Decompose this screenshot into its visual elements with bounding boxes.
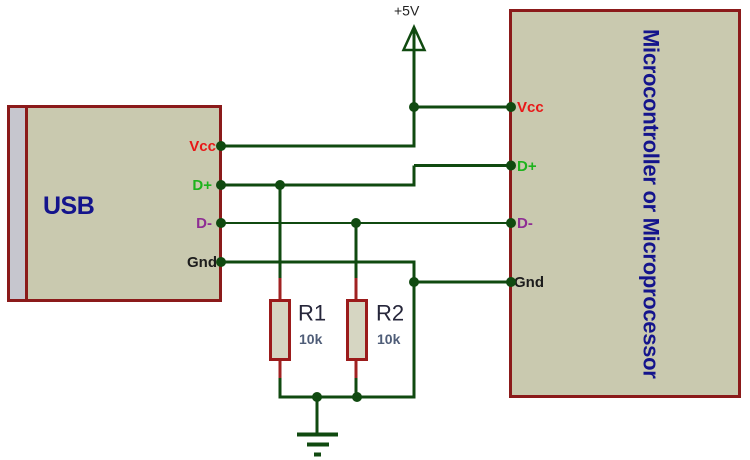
- wire R2 branch from D-: [355, 223, 358, 280]
- pin dot D- MCU: [506, 218, 516, 228]
- svg-text:USB: USB: [43, 192, 94, 220]
- wire R2 bottom lead to rail: [355, 378, 358, 399]
- pin dot Vcc MCU: [506, 102, 516, 112]
- ground: [297, 397, 338, 455]
- svg-text:10k: 10k: [377, 331, 401, 347]
- wire R1 bottom lead to rail: [279, 378, 282, 399]
- power symbol +5V: [394, 3, 425, 51]
- node ground rail junction R1-gnd: [312, 392, 322, 402]
- node D+ junction R1 tap: [275, 180, 285, 190]
- wire Gnd horizontal from USB: [221, 261, 416, 264]
- svg-text:D-: D-: [196, 215, 212, 232]
- node Vcc junction: [409, 102, 419, 112]
- svg-text:Vcc: Vcc: [517, 99, 544, 116]
- svg-text:D+: D+: [517, 158, 537, 175]
- wire R1 branch from D+: [279, 185, 282, 280]
- pin dot Gnd USB: [216, 257, 226, 267]
- resistor R2: [348, 278, 367, 380]
- wire D- horizontal USB to MCU: [221, 222, 511, 224]
- wire Gnd vertical trunk: [413, 262, 416, 399]
- resistor R1: [271, 278, 290, 380]
- wire D+ vertical step: [413, 166, 416, 187]
- pin dot Gnd MCU: [506, 277, 516, 287]
- pin dot Vcc USB: [216, 141, 226, 151]
- wire bottom ground rail: [279, 396, 416, 399]
- svg-text:D+: D+: [192, 177, 212, 194]
- USB connector J1 body: [9, 107, 221, 301]
- wire Gnd to MCU: [414, 281, 511, 284]
- svg-text:+5V: +5V: [394, 3, 420, 19]
- svg-text:10k: 10k: [299, 331, 323, 347]
- svg-text:Microcontroller or Microproces: Microcontroller or Microprocessor: [639, 29, 664, 379]
- node Gnd junction: [409, 277, 419, 287]
- Microcontroller U1 body: [511, 11, 740, 397]
- wire +5V stem down to Vcc rail: [413, 28, 416, 146]
- wire Vcc to MCU: [414, 106, 511, 109]
- svg-text:R1: R1: [298, 301, 326, 326]
- node ground rail junction R2: [352, 392, 362, 402]
- pin dot D+ USB: [216, 180, 226, 190]
- pin dot D- USB: [216, 218, 226, 228]
- wire D+ horizontal from USB: [221, 184, 416, 187]
- node D- junction R2 tap: [351, 218, 361, 228]
- wire D+ to MCU: [414, 164, 511, 167]
- wire Vcc horizontal from USB: [221, 145, 416, 148]
- svg-text:Gnd: Gnd: [187, 254, 217, 271]
- svg-text:Vcc: Vcc: [189, 138, 216, 155]
- svg-text:Gnd: Gnd: [514, 274, 544, 291]
- pin dot D+ MCU: [506, 161, 516, 171]
- svg-text:R2: R2: [376, 301, 404, 326]
- svg-text:D-: D-: [517, 215, 533, 232]
